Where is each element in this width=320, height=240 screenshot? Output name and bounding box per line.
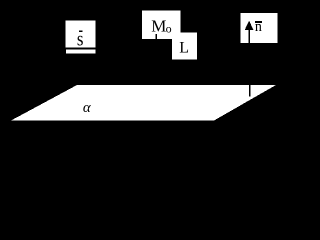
svg-text:o: o [166, 21, 172, 35]
vector bar over n [255, 21, 262, 23]
svg-text:α: α [83, 100, 92, 116]
svg-text:L: L [179, 40, 189, 57]
plane alpha (white parallelogram) [11, 85, 276, 121]
vector bar over s [79, 30, 82, 32]
arrow head [245, 21, 254, 30]
svg-text:M: M [151, 16, 166, 35]
normal line tick through plane [249, 85, 250, 97]
svg-text:n: n [255, 19, 262, 35]
label box n-bar with arrow [241, 13, 278, 43]
svg-text:s: s [77, 28, 84, 50]
label box M_o [142, 11, 180, 40]
tick below M (distance line stub) [156, 34, 157, 39]
underline bar of s-bar box [66, 49, 96, 53]
label box L [172, 33, 197, 60]
label box s-bar [66, 21, 96, 48]
arrow shaft [248, 28, 250, 43]
